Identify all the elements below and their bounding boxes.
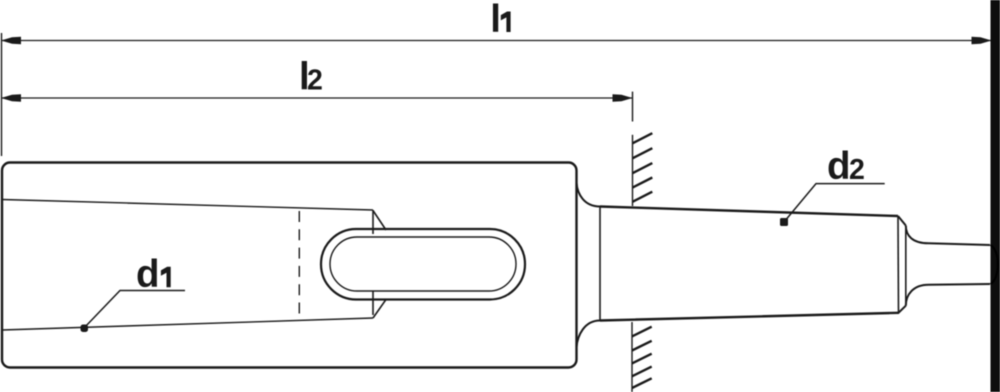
tang slot outer outline xyxy=(321,229,525,300)
bore end bottom chamfer xyxy=(373,300,386,319)
dimension line l2 xyxy=(2,97,632,99)
leader dot d2 xyxy=(780,218,788,226)
wall line below taper xyxy=(631,322,633,392)
svg-text:d: d xyxy=(136,253,160,296)
tang fillet top xyxy=(906,226,929,244)
leader dot d1 xyxy=(81,325,89,333)
bore end bottom vertical xyxy=(372,291,374,315)
taper end face xyxy=(897,216,900,313)
tang slot inner outline xyxy=(330,237,516,291)
tang fillet bottom xyxy=(906,285,929,306)
wall hatching below xyxy=(632,327,652,388)
extension line left (for l1/l2) xyxy=(1,33,3,156)
arrowhead l2 left xyxy=(1,94,21,101)
morse taper bottom line xyxy=(600,313,899,321)
sleeve body outline xyxy=(2,163,577,368)
svg-text:d2: d2 xyxy=(827,145,865,188)
end face chamfer bottom xyxy=(899,306,906,313)
arrowhead l1 right xyxy=(972,37,992,44)
border bar right xyxy=(991,0,1000,392)
leader line d1 xyxy=(84,291,185,329)
dashed gauge line xyxy=(298,211,300,318)
arrowhead l1 left xyxy=(1,37,21,44)
bore taper bottom line xyxy=(2,318,373,330)
bore taper top line xyxy=(2,200,373,211)
bore end top vertical xyxy=(372,210,374,234)
arrowhead l2 right xyxy=(613,94,633,101)
wall hatching above xyxy=(633,133,653,202)
end face chamfer top xyxy=(898,216,906,226)
taper start edge xyxy=(599,207,601,321)
end face silhouette line xyxy=(905,226,907,306)
leader line d2 xyxy=(784,184,885,222)
extension line of l2 at wall xyxy=(632,92,634,122)
tang top line xyxy=(929,243,991,245)
tang end radius (behind bar) xyxy=(991,245,998,284)
svg-text:l2: l2 xyxy=(299,55,323,98)
dimension line l1 xyxy=(2,40,991,42)
neck fillet top xyxy=(577,183,601,207)
neck fillet bottom xyxy=(577,321,601,348)
morse taper top line xyxy=(600,207,898,217)
svg-text:l: l xyxy=(490,0,501,41)
tang bottom line xyxy=(929,283,991,286)
wall line above taper xyxy=(632,135,634,206)
bore end top chamfer xyxy=(373,211,386,231)
